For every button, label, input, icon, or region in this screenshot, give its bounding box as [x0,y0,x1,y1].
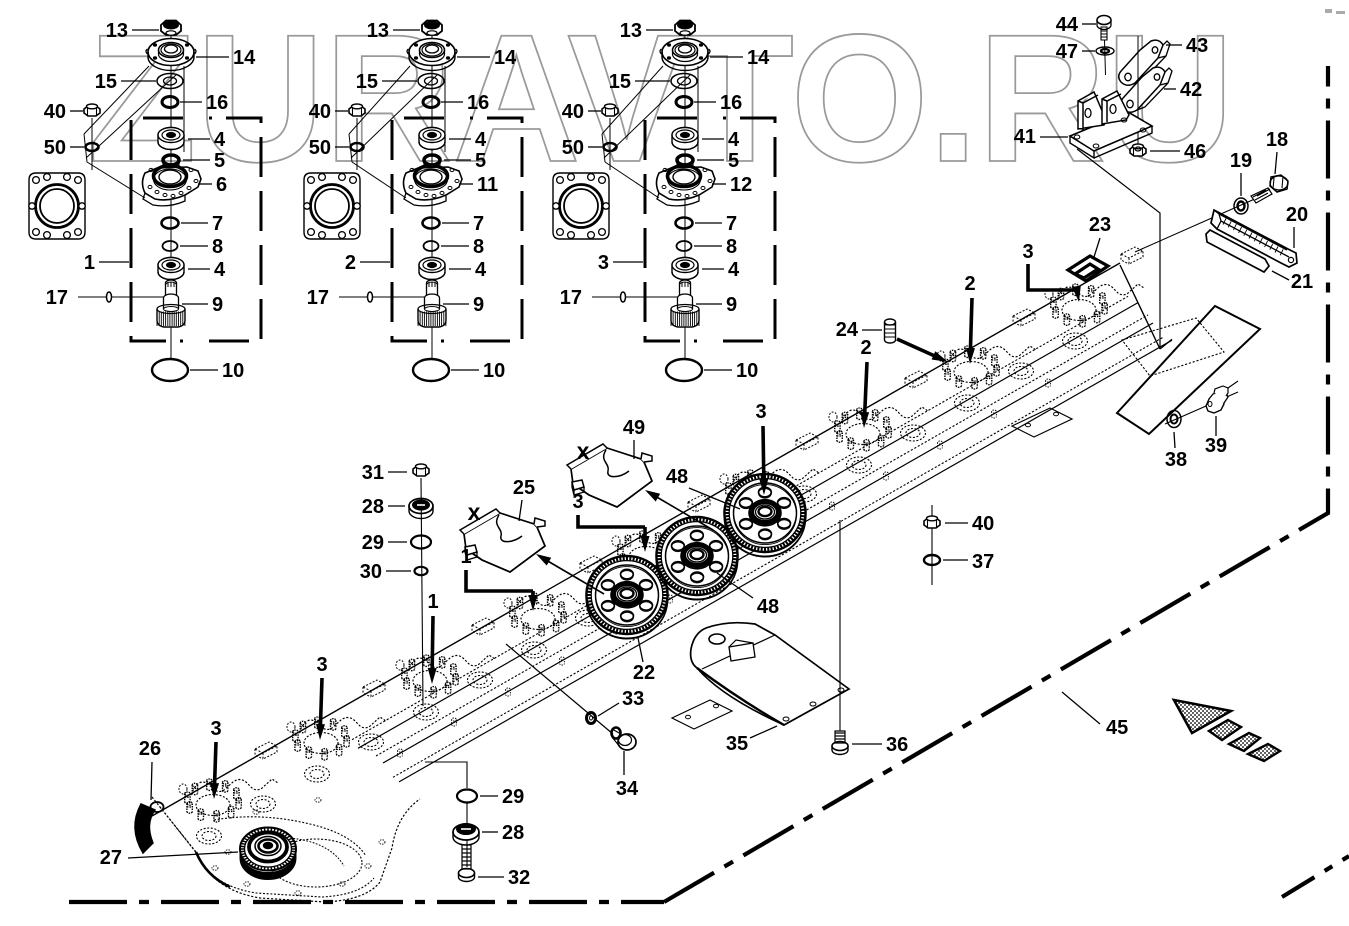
svg-text:26: 26 [139,738,161,760]
washer 50 [86,143,99,151]
alignment lines [602,66,698,198]
cover plate 35 [691,623,849,725]
exploded drive assembly 1 [131,21,261,382]
washer 38 [1165,392,1238,428]
svg-text:44: 44 [1056,14,1079,36]
bearing 4 (upper) [419,128,445,150]
washer 50 [351,143,364,151]
drive gear 27 [240,828,296,880]
svg-text:4: 4 [214,259,226,281]
svg-text:5: 5 [214,150,225,172]
bolt 36 [832,520,848,755]
svg-text:3: 3 [1022,241,1033,263]
ring 5 [677,155,693,169]
svg-text:13: 13 [106,20,128,42]
svg-text:40: 40 [972,513,994,535]
cutting station 6 [720,433,819,534]
svg-text:40: 40 [44,101,66,123]
svg-text:6: 6 [216,174,227,196]
svg-text:18: 18 [1266,129,1288,151]
bearing 4 (lower) [158,258,184,280]
svg-text:27: 27 [100,847,122,869]
cutting station 5 [612,495,711,596]
clip 23 [1068,256,1108,281]
svg-text:7: 7 [726,213,737,235]
exploded drive assembly 2 [392,21,522,382]
svg-text:36: 36 [886,734,908,756]
svg-text:8: 8 [473,236,484,258]
svg-text:4: 4 [728,259,740,281]
svg-text:48: 48 [757,596,779,618]
collar 28 (upper) [409,499,433,519]
washer 8 [163,241,178,251]
guard 25 [460,509,545,572]
svg-text:29: 29 [362,532,384,554]
svg-text:50: 50 [44,137,66,159]
svg-text:16: 16 [206,92,228,114]
cutting station 2 [287,680,386,782]
cutting station 4 [504,556,603,658]
svg-text:28: 28 [502,822,524,844]
locknut 13 [675,21,695,36]
svg-text:1: 1 [460,546,471,568]
bolt 32 [459,845,475,882]
svg-text:14: 14 [747,47,770,69]
exploded drive assembly 3 [645,21,775,382]
svg-text:50: 50 [309,137,331,159]
nut 40 (right) [924,505,940,585]
cutter bar body [152,263,1224,816]
retainer 33 [506,644,613,734]
svg-text:9: 9 [726,294,737,316]
svg-text:42: 42 [1180,79,1202,101]
svg-text:12: 12 [730,174,752,196]
ring 16 [676,97,692,108]
svg-text:10: 10 [736,360,758,382]
link plate 42 [1121,67,1172,112]
svg-text:35: 35 [726,733,748,755]
svg-text:49: 49 [623,417,645,439]
svg-text:43: 43 [1186,35,1208,57]
knife section bolts [398,379,1051,757]
svg-text:8: 8 [212,236,223,258]
leader lines [588,30,743,370]
svg-text:31: 31 [362,462,384,484]
housing 11 [404,166,463,206]
skid plate outline (end) [1117,306,1260,434]
svg-text:5: 5 [728,150,739,172]
washer 15 [157,74,183,89]
grub screw 24 [885,319,896,343]
collar 28 (lower) [453,803,479,867]
guard 49 arrow [655,496,713,530]
svg-text:x: x [577,438,590,464]
svg-text:7: 7 [212,213,223,235]
svg-text:3: 3 [755,401,766,423]
hub 14 [407,39,457,71]
cutting station 3 [396,618,495,720]
svg-text:4: 4 [475,259,487,281]
washer 50 [604,143,617,151]
leader lines [70,30,229,370]
guard 25 arrow [546,560,604,594]
svg-text:5: 5 [475,150,486,172]
washer 7 [423,218,440,229]
svg-text:17: 17 [560,287,582,309]
svg-text:50: 50 [562,137,584,159]
washer 15 [418,74,444,89]
svg-text:3: 3 [572,491,583,513]
leader bracket to bar [1077,149,1160,349]
svg-text:33: 33 [622,688,644,710]
dashed group box [392,118,522,341]
pinion shaft 9 [157,280,185,327]
svg-text:30: 30 [360,561,382,583]
tiny logo top-right [1325,9,1345,14]
flange wheel (assembly 2) [304,173,360,239]
hub 14 [146,39,196,71]
svg-text:3: 3 [316,654,327,676]
svg-text:1: 1 [427,591,438,613]
svg-text:14: 14 [494,47,517,69]
svg-text:4: 4 [475,129,487,151]
svg-text:40: 40 [309,101,331,123]
svg-text:24: 24 [836,319,859,341]
ring 5 [424,155,440,169]
washer 8 [677,241,692,251]
flange wheel (assembly 3) [553,173,609,239]
bearing 4 (lower) [672,258,698,280]
lube fitting 39 [1206,381,1238,413]
svg-text:38: 38 [1165,449,1187,471]
svg-text:2: 2 [345,252,356,274]
svg-text:x: x [468,499,481,525]
svg-text:16: 16 [720,92,742,114]
svg-text:10: 10 [483,360,505,382]
watermark ZURAVTO.RU [88,0,1234,200]
o-ring 10 [666,359,702,381]
washer 8 [424,241,439,251]
cutting station 7 [829,371,928,473]
svg-text:9: 9 [473,294,484,316]
washer 19 [1234,198,1248,214]
cutting station 9 [1045,247,1144,349]
svg-text:20: 20 [1286,204,1308,226]
svg-text:4: 4 [214,129,226,151]
svg-text:15: 15 [95,71,117,93]
ring 29 (lower) [425,762,477,803]
svg-text:39: 39 [1205,435,1227,457]
bearing 4 (upper) [158,128,184,150]
bearing 4 (upper) [672,128,698,150]
pin 17 [78,292,163,302]
inner shoe 27 area [152,797,420,902]
washer 7 [676,218,693,229]
svg-text:3: 3 [598,252,609,274]
bracket 41 [1070,91,1152,158]
bolt stack 31 nut [413,464,429,706]
svg-text:8: 8 [726,236,737,258]
svg-text:11: 11 [477,174,498,196]
nut 40 [84,104,100,170]
alignment lines [84,66,184,198]
bolt axis line [1135,194,1266,252]
o-ring 10 [413,359,449,381]
gear 48/3 (top) [724,474,805,557]
svg-text:41: 41 [1014,126,1036,148]
washer 15 [671,74,697,89]
svg-text:3: 3 [210,718,221,740]
svg-text:15: 15 [356,71,378,93]
svg-text:46: 46 [1184,141,1206,163]
bearing 4 (lower) [419,258,445,280]
svg-text:45: 45 [1106,717,1128,739]
ring 16 [162,97,178,108]
washer 37 [924,555,940,565]
assembly centerline [684,36,686,360]
dashed group box [131,118,261,341]
svg-text:29: 29 [502,786,524,808]
cutting station 8 [937,309,1036,411]
svg-text:19: 19 [1230,150,1252,172]
svg-text:48: 48 [666,466,688,488]
gear 48 (middle) [656,517,737,600]
svg-text:2: 2 [860,337,871,359]
locknut 13 [161,21,181,36]
svg-text:13: 13 [620,20,642,42]
housing 12 [657,166,716,206]
pinion shaft 9 [671,280,699,327]
svg-text:23: 23 [1089,214,1111,236]
link plate 43 [1119,40,1170,85]
screw 44 [1097,16,1111,76]
svg-text:9: 9 [212,294,223,316]
svg-text:21: 21 [1291,271,1313,293]
washer 47 [1096,47,1114,55]
svg-text:4: 4 [728,129,740,151]
svg-text:7: 7 [473,213,484,235]
assembly centerline [431,36,433,360]
ring 30 [415,567,428,575]
svg-text:28: 28 [362,496,384,518]
nut 46 [1130,144,1146,156]
o-ring 10 [152,359,188,381]
leader lines [335,30,490,370]
gear 22 [586,556,667,639]
ring 5 [163,155,179,169]
pivot axis line [1137,36,1139,144]
svg-text:25: 25 [513,477,535,499]
pin 17 [339,292,424,302]
support strap left [672,700,732,729]
nut 40 [602,104,618,170]
bolt 18 [1251,175,1288,203]
pinion shaft 9 [418,280,446,327]
svg-text:17: 17 [46,287,68,309]
ring 16 [423,97,439,108]
guard 49 [567,444,652,507]
assembly centerline [170,36,172,360]
svg-text:22: 22 [633,662,655,684]
pin 17 [592,292,677,302]
svg-text:32: 32 [508,867,530,889]
ring 29 (upper) [411,536,431,549]
svg-text:14: 14 [233,47,256,69]
wear bar 20 [1211,210,1297,267]
dashed group box [645,118,775,341]
washer 7 [162,218,179,229]
wear bar 21 [1206,230,1269,272]
svg-text:17: 17 [307,287,329,309]
svg-text:2: 2 [964,273,975,295]
alignment lines [349,66,445,198]
svg-text:37: 37 [972,551,994,573]
nut 40 [349,104,365,170]
svg-text:1: 1 [84,252,95,274]
svg-text:40: 40 [562,101,584,123]
svg-text:34: 34 [616,778,639,800]
support strap right [1012,408,1072,437]
flange wheel (assembly 1) [29,173,85,239]
deflector 26 [135,802,164,853]
svg-text:16: 16 [467,92,489,114]
svg-text:47: 47 [1056,41,1078,63]
housing 6 [143,166,202,206]
svg-text:13: 13 [367,20,389,42]
bolt 34 [612,728,637,751]
locknut 13 [422,21,442,36]
svg-text:15: 15 [609,71,631,93]
hub 14 [660,39,710,71]
svg-text:10: 10 [222,360,244,382]
cutting station 1 [179,742,278,844]
